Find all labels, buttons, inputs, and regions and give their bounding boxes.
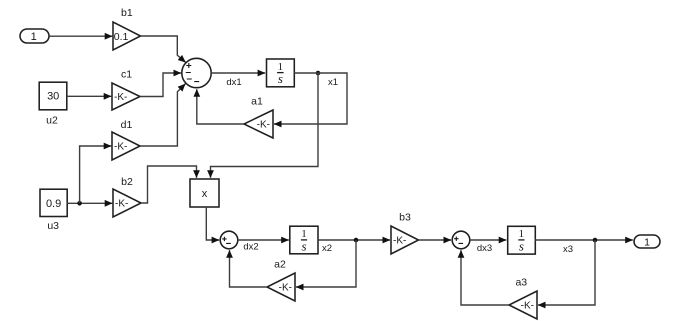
outport Out1 — [634, 235, 660, 249]
svg-text:a2: a2 — [274, 259, 286, 271]
svg-text:x2: x2 — [322, 243, 332, 254]
wire d1 to Sum1 minus input lower-left — [140, 84, 185, 146]
wire Integrator1 to a1 feedback — [274, 73, 347, 124]
wire Sum2 to Integrator2 — [238, 239, 289, 241]
gain b2 — [113, 176, 141, 217]
wire a1 to Sum1 minus input bottom — [197, 89, 244, 124]
wire u2 to c1 — [67, 95, 112, 97]
node x1 junction — [316, 71, 321, 76]
wire x2 junction to a2 — [296, 240, 356, 287]
node junction u3 branch — [77, 201, 82, 206]
gain a1 — [244, 96, 273, 139]
svg-text:u3: u3 — [47, 220, 59, 232]
integrator Integrator3 — [508, 226, 536, 254]
wire Sum3 to Integrator3 — [470, 239, 507, 241]
node x3 junction — [593, 238, 598, 243]
wire In1 to b1 — [49, 35, 112, 37]
wire Integrator3 to Out1 — [535, 239, 633, 241]
wire x3 junction to a3 — [538, 240, 595, 305]
wire x1 junction to Product input 2 — [211, 73, 319, 178]
svg-text:s: s — [278, 71, 283, 86]
svg-text:-K-: -K- — [114, 92, 127, 103]
wire u3 to b2 — [67, 202, 112, 204]
svg-text:b1: b1 — [121, 7, 133, 19]
wire a2 to Sum2 minus input bottom — [230, 250, 268, 287]
constant u2 value 30 — [39, 82, 67, 126]
svg-text:0.1: 0.1 — [114, 31, 129, 43]
gain d1 — [112, 119, 140, 160]
sum Sum2 — [220, 231, 238, 249]
integrator Integrator2 — [290, 226, 318, 254]
wire Product to Sum2 — [206, 207, 219, 240]
wire b1 to Sum1 plus input — [141, 36, 186, 62]
svg-text:d1: d1 — [121, 119, 133, 131]
svg-text:-K-: -K- — [114, 142, 127, 153]
svg-text:dx1: dx1 — [226, 77, 241, 88]
svg-text:dx3: dx3 — [477, 243, 492, 254]
svg-text:-K-: -K- — [393, 236, 406, 247]
wire b2 to Product input 1 — [141, 166, 197, 203]
svg-text:x1: x1 — [328, 77, 338, 88]
svg-text:a3: a3 — [515, 277, 527, 289]
svg-text:b2: b2 — [121, 176, 133, 188]
wire u3 junction to d1 — [80, 146, 112, 203]
svg-text:b3: b3 — [399, 212, 411, 224]
gain b3 — [391, 212, 419, 255]
gain c1 — [112, 68, 140, 110]
constant u3 value 0.9 — [40, 189, 67, 232]
svg-text:30: 30 — [47, 90, 59, 102]
svg-text:s: s — [519, 238, 524, 253]
svg-text:c1: c1 — [121, 68, 132, 80]
svg-text:0.9: 0.9 — [46, 198, 61, 210]
svg-text:-K-: -K- — [115, 199, 128, 210]
integrator Integrator1 — [267, 59, 295, 87]
svg-text:1: 1 — [31, 31, 37, 43]
svg-text:-K-: -K- — [257, 120, 270, 131]
product block x — [190, 179, 219, 207]
gain b1 — [113, 7, 141, 50]
svg-text:a1: a1 — [251, 96, 263, 108]
gain a3 — [509, 277, 537, 320]
wire b3 to Sum3 — [419, 239, 452, 241]
wire a3 to Sum3 minus input bottom — [461, 250, 509, 305]
svg-text:x3: x3 — [563, 244, 573, 255]
svg-text:-K-: -K- — [521, 301, 534, 312]
svg-text:-K-: -K- — [279, 283, 292, 294]
wire Sum1 to Integrator1 — [211, 72, 265, 74]
wire c1 to Sum1 minus input left — [140, 73, 181, 97]
svg-text:x: x — [202, 188, 208, 200]
node x2 junction — [354, 238, 359, 243]
svg-text:dx2: dx2 — [243, 242, 258, 253]
svg-text:s: s — [301, 238, 306, 253]
inport In1 — [20, 29, 49, 43]
sum Sum1 — [182, 58, 211, 87]
wire Integrator2 to b3 — [318, 239, 390, 241]
sum Sum3 — [452, 231, 470, 249]
svg-text:1: 1 — [644, 237, 650, 249]
gain a2 — [267, 259, 295, 302]
svg-text:u2: u2 — [46, 115, 58, 127]
